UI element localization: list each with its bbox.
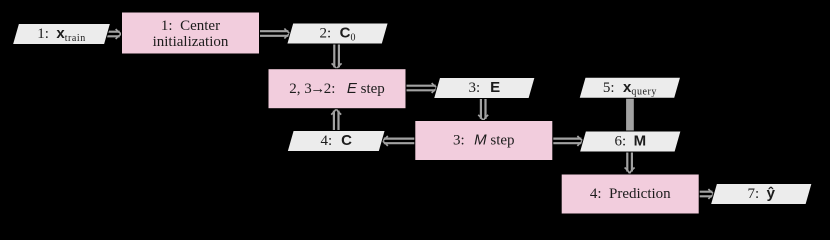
svg-text:6: M: 6: M <box>614 133 646 150</box>
data node 1: x_train (parallelogram) <box>13 24 111 45</box>
process box 1: Center initialization <box>122 12 260 54</box>
arrow E down to M step <box>478 98 488 121</box>
arrow C0 down to E step <box>332 43 342 69</box>
arrow M step to M <box>553 136 584 146</box>
arrow C up to E step (feedback loop) <box>331 109 341 132</box>
svg-text:2: C0: 2: C0 <box>319 25 355 44</box>
data node 5: x_query (parallelogram) <box>579 77 681 98</box>
data node 3: E (parallelogram) <box>434 78 535 99</box>
svg-text:2, 3→2: E step: 2, 3→2: E step <box>289 80 385 97</box>
svg-text:4: C: 4: C <box>320 132 352 149</box>
data node 6: M (parallelogram) <box>580 131 682 152</box>
data node 4: C (parallelogram) <box>287 131 385 152</box>
data node 2: C0 (parallelogram) <box>287 23 388 44</box>
svg-text:3: M step: 3: M step <box>453 132 515 149</box>
svg-text:initialization: initialization <box>153 34 229 50</box>
svg-text:3: E: 3: E <box>468 79 500 96</box>
arrow Center initialization to C0 <box>260 29 291 39</box>
arrow E step to E <box>406 83 438 93</box>
arrow x_train to Center initialization <box>104 29 122 39</box>
data node 7: y-hat (parallelogram) <box>711 184 813 205</box>
process box 4: Prediction <box>561 174 699 214</box>
arrow Prediction to y-hat <box>699 189 715 199</box>
svg-text:7: ŷ: 7: ŷ <box>747 185 775 202</box>
svg-text:1: Center: 1: Center <box>161 18 220 34</box>
arrow M step to C (leftward) <box>382 136 415 146</box>
svg-text:4: Prediction: 4: Prediction <box>590 186 671 202</box>
process box 2,3-2: E step <box>268 69 406 109</box>
wire x_query to Prediction (solid bar behind node 6: M) <box>626 98 634 133</box>
arrow M down to Prediction <box>625 151 635 174</box>
process box 3: M step <box>415 121 553 161</box>
